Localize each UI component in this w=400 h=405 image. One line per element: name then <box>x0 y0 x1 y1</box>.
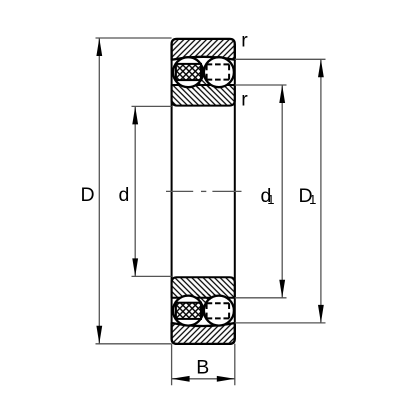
dimension D extension lines <box>96 38 172 344</box>
right side face line <box>234 44 236 339</box>
d arrow up <box>132 106 138 124</box>
B arrow left <box>172 376 190 382</box>
ball left (sectioned) <box>173 296 203 326</box>
centreline (axis) <box>166 190 242 192</box>
outer ring upper section <box>172 39 235 60</box>
dimension B line <box>172 378 235 380</box>
inner ring centre rib (wedge between balls) <box>190 73 216 89</box>
cage section (crosshatched) on left ball <box>176 64 201 80</box>
inner ring centre rib (wedge between balls) <box>190 294 216 310</box>
dimension d extension lines <box>132 106 172 276</box>
svg-text:1: 1 <box>309 192 316 207</box>
left side face line <box>171 44 173 339</box>
dimension D1 line <box>320 59 322 323</box>
ball left (sectioned) <box>173 57 203 87</box>
D1 arrow up <box>318 59 324 77</box>
svg-text:1: 1 <box>267 192 274 207</box>
inner ring lower section <box>172 277 235 298</box>
d1 arrow down <box>279 280 285 298</box>
dimension d line <box>134 106 136 276</box>
dimension d1 line <box>281 85 283 298</box>
bottom half-section of bearing (mirror) <box>172 277 235 344</box>
cage section (crosshatched) on left ball <box>176 303 201 319</box>
svg-text:d: d <box>119 184 130 206</box>
d1 arrow up <box>279 85 285 103</box>
dimension D line <box>98 38 100 344</box>
D1 arrow down <box>318 305 324 323</box>
D arrow up <box>96 38 102 56</box>
ball right <box>204 296 234 326</box>
dimension D1 extension lines <box>235 59 326 323</box>
dimension B extension lines <box>172 344 235 385</box>
top half-section of bearing <box>172 39 235 106</box>
dimension d1 extension lines <box>235 85 287 298</box>
cage hidden outline (dashed) on right ball <box>207 303 230 318</box>
svg-text:r: r <box>241 89 248 111</box>
B arrow right <box>217 376 235 382</box>
cage hidden outline (dashed) on right ball <box>207 64 230 79</box>
D arrow down <box>96 326 102 344</box>
outer ring lower section <box>172 323 235 344</box>
svg-text:r: r <box>241 30 248 52</box>
svg-text:D: D <box>81 184 95 206</box>
ball right <box>204 57 234 87</box>
inner ring upper section <box>172 85 235 106</box>
d arrow down <box>132 258 138 276</box>
svg-text:B: B <box>196 357 209 379</box>
